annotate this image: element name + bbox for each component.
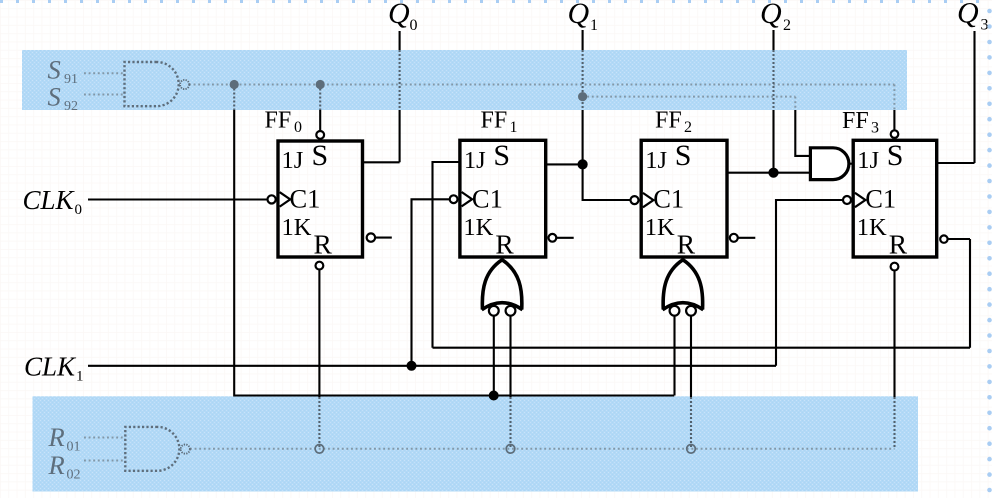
svg-text:02: 02	[67, 468, 81, 483]
svg-text:CLK: CLK	[24, 351, 77, 381]
svg-text:0: 0	[294, 119, 302, 136]
svg-text:C1: C1	[865, 184, 896, 214]
svg-text:2: 2	[684, 119, 692, 136]
svg-text:1K: 1K	[282, 214, 312, 241]
svg-text:Q: Q	[760, 0, 782, 30]
svg-text:FF: FF	[655, 108, 682, 134]
svg-text:C1: C1	[653, 184, 684, 214]
svg-text:Q: Q	[957, 0, 979, 30]
svg-text:FF: FF	[842, 108, 869, 134]
svg-text:R: R	[314, 229, 333, 260]
svg-text:3: 3	[981, 17, 989, 34]
svg-text:1: 1	[590, 17, 598, 34]
svg-text:FF: FF	[481, 108, 508, 134]
svg-text:Q: Q	[388, 0, 410, 30]
svg-text:S: S	[48, 55, 61, 85]
svg-text:1K: 1K	[463, 214, 493, 241]
svg-text:S: S	[48, 82, 61, 112]
svg-text:S: S	[493, 139, 510, 172]
svg-text:S: S	[675, 139, 692, 172]
svg-text:R: R	[889, 229, 908, 260]
svg-text:1J: 1J	[464, 147, 486, 174]
svg-text:1J: 1J	[282, 147, 304, 174]
svg-text:0: 0	[410, 17, 418, 34]
svg-text:91: 91	[64, 72, 78, 87]
svg-text:3: 3	[871, 120, 879, 137]
svg-text:CLK: CLK	[23, 185, 76, 215]
svg-text:R: R	[677, 229, 696, 260]
svg-text:92: 92	[64, 99, 78, 114]
svg-text:Q: Q	[568, 0, 590, 30]
svg-text:1K: 1K	[857, 214, 887, 241]
svg-text:R: R	[48, 450, 65, 480]
svg-text:C1: C1	[290, 184, 321, 214]
svg-text:R: R	[48, 422, 65, 452]
svg-text:2: 2	[783, 17, 791, 34]
svg-text:1J: 1J	[645, 147, 667, 174]
svg-text:1: 1	[76, 369, 84, 385]
svg-text:1J: 1J	[857, 147, 879, 174]
svg-text:FF: FF	[265, 108, 292, 134]
svg-text:S: S	[887, 139, 904, 172]
svg-text:S: S	[312, 139, 329, 172]
svg-text:C1: C1	[472, 184, 503, 214]
svg-text:1: 1	[510, 119, 518, 136]
svg-text:01: 01	[67, 440, 81, 455]
svg-text:0: 0	[75, 202, 83, 218]
svg-text:1K: 1K	[645, 214, 675, 241]
svg-text:R: R	[495, 229, 514, 260]
